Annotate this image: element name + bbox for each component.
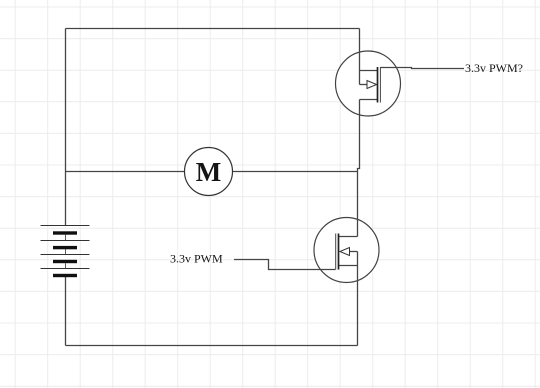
svg-text:M: M: [196, 157, 221, 187]
svg-text:3.3v PWM?: 3.3v PWM?: [465, 61, 523, 75]
svg-text:3.3v PWM: 3.3v PWM: [170, 252, 223, 266]
